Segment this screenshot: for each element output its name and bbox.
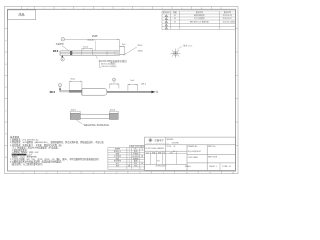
dim 25±1 v2 xyxy=(69,81,82,90)
note line 7 dark xyxy=(12,154,27,156)
svg-text:2: 2 xyxy=(44,8,45,10)
revision table xyxy=(162,11,235,29)
dim 5±1 v2 xyxy=(128,84,138,91)
approver headers xyxy=(146,151,173,154)
title h-lines xyxy=(145,144,236,146)
svg-text:5: 5 xyxy=(166,28,167,30)
revision triangle r4 xyxy=(165,21,168,24)
revision triangle r3 xyxy=(165,18,168,21)
top-left label box xyxy=(8,10,36,20)
svg-text:8: 8 xyxy=(162,8,163,10)
zone ticks left xyxy=(5,29,8,146)
below-bar leader xyxy=(96,55,98,58)
dim 5±1 right v1 xyxy=(119,46,124,55)
svg-text:成品: 成品 xyxy=(18,12,24,17)
svg-text:Ø0.5: Ø0.5 xyxy=(141,84,147,86)
svg-text:WELDING SURFACE: WELDING SURFACE xyxy=(84,124,110,127)
svg-text:3±0.5: 3±0.5 xyxy=(71,109,77,111)
body left edge line xyxy=(81,89,83,96)
svg-text:MODEL:: MODEL: xyxy=(167,139,175,141)
svg-text:02: 02 xyxy=(174,18,176,20)
light sleeve right xyxy=(115,51,119,55)
bracket note 2-line xyxy=(100,61,117,68)
left block hatch xyxy=(70,113,80,119)
svg-text:SHEET: 1: SHEET: 1 xyxy=(209,166,217,168)
zone ticks top xyxy=(22,7,212,10)
svg-text:2019-04-03: 2019-04-03 xyxy=(156,166,166,168)
svg-text:Ø0.6: Ø0.6 xyxy=(53,50,59,53)
revision table header text xyxy=(163,10,231,14)
svg-text:PART No.: PART No. xyxy=(208,145,216,148)
handle body xyxy=(82,89,107,96)
svg-text:2019-06-27: 2019-06-27 xyxy=(223,18,232,20)
dimension 1545 line xyxy=(65,39,120,51)
svg-text:4: 4 xyxy=(83,8,84,10)
outer border frame xyxy=(5,7,239,174)
balloon 2 xyxy=(113,78,116,81)
svg-text:Ø0.5: Ø0.5 xyxy=(138,45,144,47)
balloon 1 xyxy=(58,84,61,87)
tube body xyxy=(80,114,109,119)
svg-text:01: 01 xyxy=(174,15,176,17)
svg-text:6: 6 xyxy=(122,8,123,10)
wire end slash xyxy=(124,53,126,55)
dim mid v2 xyxy=(110,84,119,89)
zone ticks right xyxy=(236,29,239,146)
welding leader xyxy=(76,120,82,125)
zone letters left xyxy=(5,41,7,160)
svg-text:1: 1 xyxy=(166,16,167,18)
svg-text:DRAWN No.: DRAWN No. xyxy=(188,145,199,148)
header strip dividers xyxy=(145,153,187,155)
svg-text:2: 2 xyxy=(114,80,115,82)
svg-text:PART SIZE: PART SIZE xyxy=(208,156,218,159)
svg-text:25±1: 25±1 xyxy=(70,79,76,81)
revision triangle r5 xyxy=(165,24,168,27)
svg-text:1545: 1545 xyxy=(92,35,98,38)
svg-text:1: 1 xyxy=(60,85,61,87)
svg-text:9: 9 xyxy=(181,8,182,10)
svg-text:11: 11 xyxy=(220,8,222,10)
svg-text:Ø0.6: Ø0.6 xyxy=(50,91,56,94)
zone numbers bottom xyxy=(22,172,235,174)
svg-text:1: 1 xyxy=(27,8,28,10)
parts header text xyxy=(131,145,145,148)
parts rows text xyxy=(114,147,143,168)
leader to 0.5 label xyxy=(125,47,137,55)
svg-text:SHENZHEN YIXIN ELECTRONICS CO.: SHENZHEN YIXIN ELECTRONICS CO.,LTD xyxy=(146,143,169,145)
svg-text:4:1: 4:1 xyxy=(173,151,176,153)
svg-text:2019-06-13: 2019-06-13 xyxy=(223,15,232,17)
revision triangle r2 xyxy=(165,15,168,18)
svg-text:03: 03 xyxy=(174,21,176,23)
svg-text:4: 4 xyxy=(166,25,167,27)
zone numbers top xyxy=(27,8,222,10)
flower leader xyxy=(177,47,182,51)
svg-text:15±1: 15±1 xyxy=(83,47,89,49)
svg-text:CUSTOMER: CUSTOMER xyxy=(188,157,199,159)
right welding block xyxy=(110,113,119,119)
parts grid xyxy=(108,148,145,170)
inner border frame xyxy=(8,9,236,171)
svg-text:JT-8TR: JT-8TR xyxy=(171,143,179,145)
balloon B under bar xyxy=(61,58,64,61)
svg-text:7: 7 xyxy=(142,8,143,10)
svg-text:SCALE:: SCALE: xyxy=(185,165,192,168)
sleeve dividers xyxy=(82,51,117,55)
dim 3±0.5 left xyxy=(70,111,80,113)
leader label left xyxy=(56,42,69,50)
ext line mid xyxy=(95,41,97,51)
revision triangle r6 xyxy=(165,27,168,30)
right block hatch xyxy=(110,113,119,119)
svg-text:TOOL: TOOL xyxy=(167,146,172,148)
zone ticks bottom xyxy=(34,171,221,174)
parts header box xyxy=(130,145,145,148)
dim 15±1 xyxy=(82,48,93,51)
title block outline xyxy=(145,137,236,170)
dim 3±0.5 right xyxy=(110,111,119,113)
svg-text:3±0.5: 3±0.5 xyxy=(110,109,116,111)
svg-text:3: 3 xyxy=(166,22,167,24)
main tube bar xyxy=(60,51,119,55)
logo diamond xyxy=(149,138,153,142)
svg-text:5: 5 xyxy=(103,8,104,10)
svg-text:DQ-24(45)DJC: DQ-24(45)DJC xyxy=(188,151,202,153)
arrow under bar xyxy=(61,55,63,57)
wire stub v1 xyxy=(119,54,124,56)
title verticals xyxy=(166,137,207,170)
revision row texts xyxy=(174,13,235,23)
dark sleeve segment xyxy=(70,51,72,55)
svg-text:TOTAL: 1/1: TOTAL: 1/1 xyxy=(222,165,231,168)
svg-text:10: 10 xyxy=(201,8,203,10)
cable end circle xyxy=(156,91,158,93)
cable xyxy=(107,91,151,92)
cable end arrow xyxy=(151,91,155,94)
balloon 1 arrow xyxy=(59,87,61,89)
needle rod xyxy=(60,91,69,92)
balloon A xyxy=(61,38,65,42)
svg-text:3: 3 xyxy=(63,8,64,10)
svg-text:2: 2 xyxy=(166,19,167,21)
knurl segment xyxy=(69,90,82,92)
left welding block xyxy=(70,113,80,119)
projection flower symbol xyxy=(171,49,181,58)
